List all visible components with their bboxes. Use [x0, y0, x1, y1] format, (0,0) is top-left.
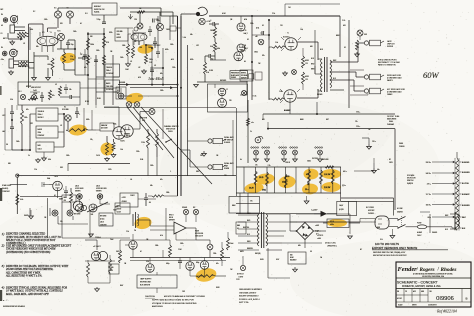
- return jack B: [67, 210, 73, 216]
- title table lines: [396, 289, 471, 303]
- ground: [36, 158, 41, 163]
- wire plate OT: [297, 42, 318, 98]
- junctions t2: [145, 44, 179, 97]
- label 47: [54, 195, 63, 201]
- input jack J3: [2, 51, 7, 56]
- wire: [30, 208, 50, 216]
- wire: [157, 250, 163, 275]
- svg-text:1.5k: 1.5k: [52, 45, 55, 47]
- svg-text:180k: 180k: [254, 52, 258, 54]
- wire: [85, 240, 97, 250]
- label 470: [138, 67, 141, 79]
- svg-text:(LT4L): (LT4L): [100, 219, 105, 221]
- svg-text:CK: CK: [405, 291, 407, 293]
- svg-text:BLU: BLU: [311, 58, 314, 60]
- label A7A: [256, 27, 260, 30]
- bias pot at 284: [279, 147, 287, 162]
- svg-text:(2)5 +: (2)5 +: [342, 185, 346, 187]
- cap o1p: [153, 12, 159, 23]
- wire: [57, 41, 75, 50]
- note 4ohm: [378, 60, 400, 67]
- svg-text:CONCERT: CONCERT: [428, 305, 438, 307]
- h top 196: [20, 196, 62, 198]
- svg-text:.022: .022: [196, 45, 199, 47]
- highlighter mark on R64 resistor: [302, 183, 319, 195]
- pot VR1: [55, 11, 62, 28]
- vert x90b: [89, 210, 91, 238]
- svg-text:GL-20: GL-20: [285, 176, 290, 178]
- svg-text:DRIVER: DRIVER: [96, 191, 101, 193]
- label jack unplug: [387, 40, 395, 48]
- bus 27k: [209, 13, 340, 16]
- left rail of bank: [233, 108, 237, 196]
- wire ch bus: [148, 148, 157, 176]
- svg-text:120V 4.5 W: 120V 4.5 W: [195, 236, 203, 238]
- input jack J2: [10, 15, 17, 22]
- vert x158: [157, 16, 159, 48]
- OT sec leads: [330, 60, 356, 90]
- svg-text:47k: 47k: [26, 109, 29, 111]
- master vol pot: [140, 109, 155, 123]
- label c30: [134, 230, 136, 232]
- label 5.3k: [206, 72, 209, 74]
- vert x170: [169, 16, 171, 40]
- nfb box: [100, 123, 114, 131]
- svg-text:2700 Ω: 2700 Ω: [285, 162, 291, 164]
- svg-text:SG: SG: [6, 144, 8, 146]
- label grd: [255, 253, 261, 255]
- svg-text:.02: .02: [138, 67, 140, 69]
- resistor R41: [156, 129, 159, 157]
- label 1.5k b: [252, 96, 257, 98]
- svg-text:470k: 470k: [165, 49, 169, 51]
- bank resistor 4: [308, 170, 311, 184]
- schematic title: [397, 280, 441, 288]
- svg-text:.022: .022: [2, 115, 5, 117]
- wire: [96, 127, 115, 130]
- svg-text:SWITCH ON: SWITCH ON: [166, 129, 176, 131]
- resistor R1 68k: [17, 29, 33, 35]
- bus 220 b: [263, 114, 395, 129]
- svg-text:1.5k: 1.5k: [275, 42, 278, 44]
- svg-text:100k: 100k: [96, 50, 100, 52]
- power tube V6: [284, 90, 296, 102]
- cap C9b: [156, 48, 160, 58]
- wire: [138, 198, 156, 200]
- scribble marks: [3, 299, 9, 302]
- PT secondary: [266, 214, 268, 246]
- svg-text:GRN: GRN: [260, 259, 263, 261]
- svg-text:47k: 47k: [216, 263, 219, 265]
- wire y82: [197, 80, 248, 82]
- svg-text:BLK/WHT: BLK/WHT: [462, 194, 470, 196]
- label 3.3M: [209, 70, 213, 72]
- wire top bus: [29, 8, 93, 24]
- transf box: [109, 264, 119, 274]
- svg-text:REV: REV: [110, 270, 113, 272]
- PT primary: [257, 214, 259, 246]
- svg-text:BOOST: BOOST: [26, 86, 31, 88]
- ground: [142, 69, 147, 74]
- svg-text:CONCERT: CONCERT: [38, 135, 45, 137]
- svg-text:BLK/GRN: BLK/GRN: [462, 172, 470, 174]
- svg-text:SWITCH ON: SWITCH ON: [94, 9, 105, 11]
- svg-text:GRN: GRN: [247, 241, 250, 243]
- svg-text:.1: .1: [170, 171, 171, 173]
- cap C6: [78, 54, 88, 60]
- ground: [9, 70, 14, 75]
- pot circle 12B: [134, 19, 143, 31]
- svg-text:100k: 100k: [250, 23, 254, 25]
- wire: [64, 69, 75, 71]
- resistor R20 slope: [66, 129, 96, 132]
- labels rev: [124, 245, 217, 265]
- label ch2: [1, 47, 5, 61]
- bank wire x244: [243, 167, 245, 193]
- svg-text:12B: 12B: [134, 19, 137, 21]
- svg-text:R: R: [17, 16, 18, 18]
- wire pilot: [242, 256, 244, 265]
- diag wire 3: [141, 107, 212, 184]
- label 4ohm5w: [397, 208, 403, 214]
- diag wire 1: [127, 107, 163, 150]
- jack feed wires: [350, 70, 368, 95]
- wire: [29, 24, 44, 36]
- cap c2x: [148, 26, 152, 36]
- svg-text:.02: .02: [130, 61, 132, 63]
- svg-text:47k: 47k: [160, 73, 163, 75]
- wire stage link: [75, 75, 120, 88]
- reverb output jack: [196, 7, 207, 16]
- bank bot bus: [236, 192, 341, 194]
- OT leads in: [318, 59, 322, 91]
- diag wire 2: [133, 107, 174, 158]
- fuse label: [195, 231, 203, 238]
- wire: [125, 234, 133, 245]
- resistor R27: [70, 188, 73, 210]
- vert x163: [162, 48, 164, 85]
- bank wire x255.6: [255, 167, 257, 193]
- channel switch label: [164, 125, 179, 133]
- svg-text:Rogers: Rogers: [420, 267, 435, 273]
- PT leads right: [266, 214, 296, 243]
- svg-text:WHT: WHT: [333, 60, 336, 62]
- svg-text:100k: 100k: [170, 44, 174, 46]
- triode V0B GA7: [237, 44, 248, 52]
- svg-text:.02-1: .02-1: [18, 91, 22, 93]
- svg-text:N 3/4: N 3/4: [85, 101, 89, 103]
- svg-text:.02: .02: [154, 65, 156, 67]
- logo Fender Rogers Rhodes: [398, 266, 457, 273]
- svg-text:470: 470: [262, 119, 265, 121]
- input jack J1: [3, 18, 7, 22]
- cap C8b: [80, 53, 87, 57]
- gnd arrow left: [29, 210, 34, 219]
- note 3: [2, 264, 70, 277]
- svg-text:+ 465: + 465: [317, 238, 321, 240]
- resistor extra2: [132, 33, 135, 58]
- vert: [214, 52, 216, 60]
- svg-text:+600v: +600v: [330, 224, 334, 226]
- cap C16: [2, 120, 14, 136]
- screen res 1: [302, 56, 310, 68]
- resistor R55: [227, 232, 230, 250]
- svg-text:.05: .05: [130, 179, 132, 181]
- scan edge mark 2: [0, 290, 2, 301]
- svg-text:820k: 820k: [109, 32, 113, 34]
- long bus B: [180, 16, 182, 196]
- svg-text:S(2)5A: S(2)5A: [94, 11, 100, 14]
- AC run wire: [290, 214, 296, 222]
- svg-text:.1: .1: [210, 20, 211, 22]
- junction dots t1: [74, 33, 105, 76]
- highlighter mark on C30 reverb cap: [133, 216, 152, 231]
- label 6L6GC lower: [284, 110, 291, 112]
- svg-text:BLU: BLU: [320, 49, 323, 51]
- edge box t2: [116, 87, 126, 99]
- svg-text:V.1: V.1: [42, 32, 45, 34]
- vert x152: [151, 48, 153, 84]
- power tube V5: [285, 38, 297, 50]
- ground: [362, 138, 376, 149]
- resistor R19: [21, 105, 28, 124]
- small box: [249, 74, 254, 79]
- cap C13: [209, 20, 219, 26]
- svg-text:FLUX BULB: FLUX BULB: [195, 233, 203, 235]
- svg-text:680: 680: [48, 64, 51, 66]
- svg-text:0.1: 0.1: [247, 39, 249, 41]
- svg-text:SWITCH: SWITCH: [407, 180, 414, 182]
- svg-text:4 Ω 5W: 4 Ω 5W: [397, 208, 403, 210]
- svg-text:S-CON: S-CON: [117, 212, 121, 214]
- svg-text:2.2k: 2.2k: [268, 165, 271, 167]
- fuse F1: [406, 223, 455, 229]
- vert x62: [61, 202, 63, 238]
- resistor R40 270k: [141, 129, 150, 148]
- selector lead WHT: [460, 217, 466, 219]
- svg-text:+90: +90: [255, 36, 258, 38]
- triode V10B: [186, 262, 194, 270]
- svg-text:VOLUME: VOLUME: [62, 109, 69, 111]
- handwritten 60W: [423, 70, 440, 80]
- svg-text:BOOST: BOOST: [117, 209, 122, 211]
- svg-text:SLEEVE: SLEEVE: [224, 142, 230, 144]
- bank wire x296: [295, 167, 297, 193]
- resistor R54: [221, 242, 224, 266]
- grid resistor: [272, 42, 285, 48]
- wire plate up: [104, 107, 119, 127]
- pilot lamp: [240, 265, 245, 270]
- svg-text:100k: 100k: [166, 192, 170, 194]
- svg-text:VOLTAGE TO BLEED OFF BEFORE SE: VOLTAGE TO BLEED OFF BEFORE SERVICING: [152, 302, 197, 305]
- svg-text:0.1: 0.1: [262, 25, 264, 27]
- svg-text:1.2k 1W: 1.2k 1W: [324, 174, 331, 176]
- triode V11: [200, 261, 208, 269]
- svg-text:27k: 27k: [272, 13, 275, 15]
- svg-text:3.3M: 3.3M: [209, 70, 213, 72]
- svg-text:430: 430: [310, 46, 313, 48]
- svg-text:2200uF: 2200uF: [95, 237, 101, 239]
- bus C: [187, 45, 189, 176]
- bus 220 a: [263, 102, 395, 114]
- res box: [18, 61, 29, 67]
- pot VR6 4.7M: [199, 18, 211, 24]
- selector lead BLK/RED: [460, 162, 471, 164]
- svg-text:680: 680: [8, 163, 11, 165]
- svg-text:3.6k: 3.6k: [210, 46, 213, 48]
- svg-text:GROUND SWITCH CAP, CR(4A), 4 K: GROUND SWITCH CAP, CR(4A), 4 KV: [373, 251, 406, 254]
- svg-text:Ref #022104: Ref #022104: [436, 310, 457, 314]
- labels psu: [315, 225, 321, 236]
- cap C18: [63, 186, 68, 198]
- svg-text:TIP SWITCH: TIP SWITCH: [224, 140, 234, 142]
- svg-text:Fender: Fender: [398, 266, 418, 273]
- section divider line: [104, 107, 236, 109]
- vert x252: [251, 20, 253, 100]
- title rule 2: [396, 288, 471, 290]
- pot VR5: [156, 20, 164, 31]
- svg-text:5.6k: 5.6k: [20, 199, 23, 201]
- cap C9c: [150, 66, 154, 76]
- resistor R51: [109, 255, 112, 273]
- bass box 3: [36, 126, 58, 138]
- long bus A: [177, 16, 179, 196]
- bank wire x274.7: [274, 167, 276, 193]
- socket: [292, 70, 297, 75]
- svg-text:SPKRS: SPKRS: [387, 46, 394, 48]
- bank resistor 2: [266, 172, 269, 186]
- selector tap 240 V+: [426, 172, 455, 175]
- svg-text:BLK/RED: BLK/RED: [462, 162, 470, 164]
- svg-text:10k: 10k: [200, 155, 203, 157]
- svg-text:45: 45: [244, 61, 246, 63]
- triode V1 12AX7: [37, 36, 58, 46]
- resistor R8 68k: [19, 61, 28, 63]
- labels t2c: [122, 41, 137, 47]
- highlighter mark on R62 resistor: [278, 175, 297, 189]
- svg-text:R: R: [17, 51, 18, 53]
- label 180k: [254, 52, 258, 54]
- vert x104: [103, 28, 105, 105]
- svg-text:56-2R: 56-2R: [249, 188, 254, 190]
- highlighter mark on R60 screen resistor: [255, 173, 275, 186]
- svg-text:RECEPTACLE DELETED FOR EXPORT: RECEPTACLE DELETED FOR EXPORT: [373, 254, 408, 257]
- volume box t2: [115, 28, 128, 41]
- vertical drop x395: [394, 129, 396, 210]
- wire selector up: [447, 152, 457, 227]
- svg-text:47: 47: [140, 251, 142, 253]
- resistor R16: [210, 38, 217, 52]
- svg-text:220 +: 220 +: [356, 112, 360, 114]
- selector tap 280 V+: [426, 161, 455, 164]
- wire y79: [88, 79, 104, 108]
- wire rev3: [186, 215, 196, 222]
- cap C9: [153, 37, 160, 48]
- svg-text:SW2: SW2: [196, 171, 199, 173]
- ground: [283, 71, 288, 76]
- power tube pins: [280, 37, 301, 103]
- svg-text:.02: .02: [23, 43, 25, 45]
- resistor R24: [105, 136, 110, 161]
- labels t2: [154, 29, 174, 75]
- svg-text:#2 PILOT: #2 PILOT: [237, 274, 244, 276]
- svg-text:220k: 220k: [213, 253, 217, 255]
- svg-text:68k: 68k: [30, 29, 33, 31]
- label export small: [373, 251, 408, 257]
- svg-text:500p: 500p: [196, 262, 199, 264]
- triode V3A: [234, 47, 246, 61]
- cap C31: [178, 258, 182, 270]
- svg-text:S-CONCERT: S-CONCERT: [106, 73, 114, 75]
- svg-text:100k: 100k: [90, 44, 94, 46]
- boost parts: [28, 90, 55, 102]
- resistor R50: [87, 260, 90, 277]
- jack loop ret: [96, 185, 106, 193]
- svg-text:IS 100Ω Δ +6 Ω, B-301 A: IS 100Ω Δ +6 Ω, B-301 A: [238, 298, 260, 301]
- svg-text:C4: C4: [134, 230, 136, 232]
- label 100k3: [166, 192, 170, 194]
- bias pot at 256: [251, 147, 259, 162]
- caution text: [145, 295, 205, 308]
- selector tap 100 V+: [426, 203, 455, 206]
- wire: [240, 81, 247, 95]
- top right stub: [285, 4, 340, 16]
- svg-text:GRN/YEL: GRN/YEL: [247, 248, 253, 250]
- label pots: [54, 8, 69, 10]
- svg-text:BULB: BULB: [169, 217, 173, 219]
- label inputs: [1, 14, 18, 27]
- handwritten 12ax7: [148, 76, 164, 81]
- bias pot at 295: [290, 147, 298, 162]
- svg-text:700: 700: [64, 200, 67, 202]
- svg-text:± 7L: ± 7L: [244, 30, 247, 32]
- svg-text:465: 465: [298, 245, 301, 247]
- svg-text:DOWN: DOWN: [224, 168, 230, 170]
- HT vert: [340, 16, 345, 57]
- svg-text:100 V+: 100 V+: [426, 205, 431, 207]
- bank drop wires: [240, 193, 248, 214]
- bottom cells: [398, 304, 438, 307]
- vert x248: [247, 100, 249, 163]
- svg-text:SCHEMATIC - CONCERT: SCHEMATIC - CONCERT: [397, 280, 439, 284]
- left bias boxes: [236, 222, 246, 234]
- wire bridge: [290, 214, 326, 248]
- selector lead BLK/GRN: [460, 205, 471, 207]
- svg-text:250k: 250k: [117, 34, 120, 36]
- svg-text:5k: 5k: [240, 159, 242, 161]
- label D600: [399, 143, 404, 148]
- svg-text:270k: 270k: [141, 142, 145, 144]
- svg-text:25uF: 25uF: [110, 239, 114, 241]
- bank resistor 6: [331, 170, 334, 184]
- svg-text:Rhodes: Rhodes: [441, 267, 457, 273]
- feed wires: [341, 193, 394, 216]
- resistor R2 1M: [17, 34, 29, 38]
- vert x430: [420, 212, 430, 233]
- svg-text:1.5k: 1.5k: [300, 29, 303, 31]
- ret jack J6: [97, 194, 102, 199]
- svg-text:JCK: JCK: [117, 90, 120, 92]
- svg-text:600: 600: [290, 255, 293, 257]
- svg-text:250k: 250k: [38, 132, 42, 134]
- bank resistor 5: [320, 170, 323, 184]
- svg-text:100k: 100k: [210, 30, 214, 32]
- svg-text:470: 470: [138, 77, 141, 79]
- wire rev2: [157, 232, 205, 293]
- wire: [49, 185, 58, 198]
- bright switch box: [92, 3, 117, 15]
- wire: [133, 112, 149, 130]
